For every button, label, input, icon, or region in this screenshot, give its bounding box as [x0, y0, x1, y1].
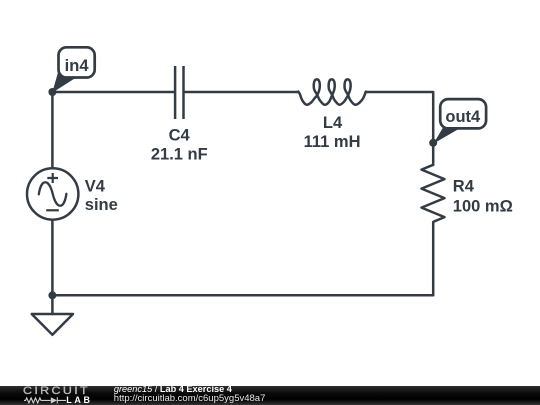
svg-text:V4: V4 — [85, 178, 106, 196]
svg-text:R4: R4 — [453, 178, 475, 196]
svg-text:C4: C4 — [169, 126, 191, 144]
svg-text:in4: in4 — [65, 57, 90, 75]
svg-text:sine: sine — [85, 196, 118, 214]
svg-text:21.1 nF: 21.1 nF — [151, 145, 208, 163]
svg-text:out4: out4 — [445, 108, 481, 126]
svg-text:100 mΩ: 100 mΩ — [453, 197, 513, 215]
svg-text:111 mH: 111 mH — [304, 133, 361, 151]
svg-text:L4: L4 — [323, 114, 343, 132]
